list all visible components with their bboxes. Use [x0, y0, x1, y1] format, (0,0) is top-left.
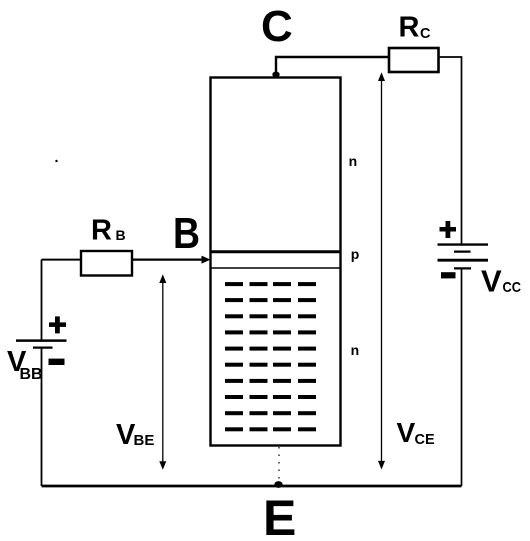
minus sign VCC	[441, 272, 456, 278]
svg-text:BE: BE	[134, 432, 155, 449]
svg-text:R: R	[399, 12, 420, 44]
left wire down to VBB	[41, 260, 43, 340]
transistor body outline	[211, 78, 341, 446]
svg-text:B: B	[116, 227, 126, 243]
plus sign VCC	[440, 221, 457, 238]
svg-text:C: C	[420, 26, 431, 42]
svg-text:B: B	[173, 209, 200, 258]
VBE measurement arrow	[159, 274, 166, 470]
battery VCC	[438, 245, 489, 269]
base arrowhead	[202, 256, 211, 264]
junction dot emitter	[274, 481, 282, 488]
emitter dotted connection	[278, 447, 280, 482]
base-collector junction line (p top)	[211, 250, 341, 253]
svg-text:n: n	[349, 153, 358, 169]
svg-text:V: V	[481, 264, 502, 299]
wire VCC to bottom rail	[461, 268, 463, 486]
VCE measurement arrow	[378, 72, 385, 469]
svg-text:C: C	[261, 2, 293, 51]
svg-text:V: V	[397, 417, 416, 448]
svg-text:CE: CE	[415, 432, 435, 448]
base wire right segment	[132, 259, 203, 261]
emitter dash hatching	[225, 282, 316, 431]
plus sign VBB	[49, 316, 66, 333]
resistor RC	[389, 48, 439, 72]
battery VBB	[16, 341, 67, 348]
stray scan dot	[55, 160, 57, 162]
svg-text:BB: BB	[20, 366, 43, 383]
wire VBB to bottom rail	[41, 348, 43, 486]
svg-text:CC: CC	[503, 279, 522, 296]
svg-text:p: p	[351, 246, 360, 262]
junction dot collector	[272, 72, 279, 78]
base-emitter junction line (p bottom)	[211, 267, 341, 269]
svg-text:n: n	[351, 342, 360, 358]
wire RC to VCC battery	[439, 57, 462, 244]
bottom emitter rail	[42, 485, 462, 488]
svg-text:R: R	[91, 215, 112, 247]
resistor RB	[81, 251, 132, 276]
collector wire	[276, 57, 389, 77]
svg-text:E: E	[263, 490, 296, 541]
minus sign VBB	[49, 359, 65, 365]
base wire left segment	[42, 259, 82, 261]
